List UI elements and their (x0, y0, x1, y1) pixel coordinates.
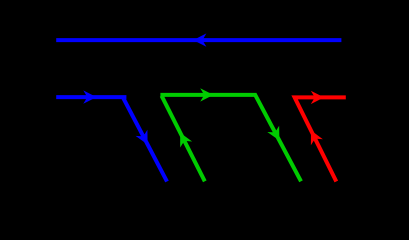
arrow on green right diagonal (pointing down-right) (267, 126, 285, 144)
arrow on blue diagonal (pointing down-right) (136, 130, 154, 148)
wire: top blue horizontal line (56, 38, 341, 42)
arrow on green left diagonal (pointing up-left) (174, 130, 192, 148)
arrow on red diagonal (pointing up-left) (305, 127, 323, 145)
arrow on top blue line (pointing left) (193, 33, 206, 46)
arrow on red horizontal (pointing right) (311, 91, 324, 104)
wire: blue horizontal segment (56, 95, 126, 99)
wire: green left diagonal segment (tucked under horizontal) (162, 96, 205, 182)
wire: red diagonal + horizontal (mitered) (295, 97, 346, 181)
arrow on blue horizontal (pointing right) (83, 90, 96, 103)
arrow on green horizontal (pointing right) (200, 88, 213, 101)
wire: blue diagonal segment (down-right) (122, 96, 167, 181)
wire: green horizontal + right diagonal (mitered) (160, 95, 301, 181)
